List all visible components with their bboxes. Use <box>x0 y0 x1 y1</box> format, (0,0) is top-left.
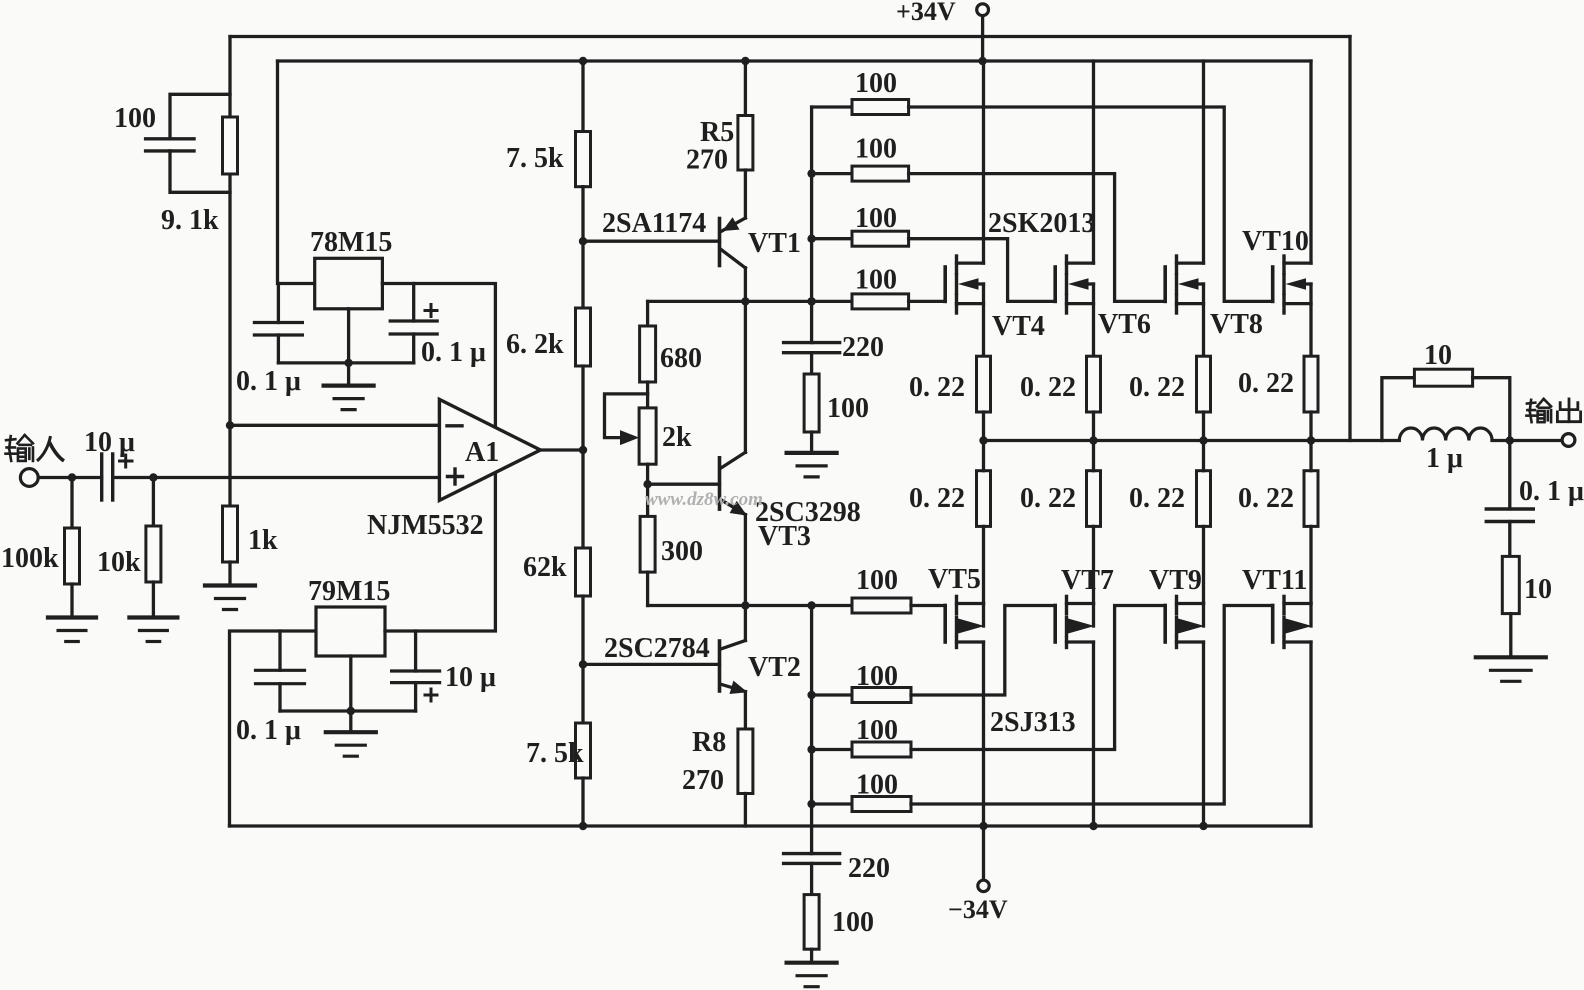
resistor 7.5k (upper) <box>576 132 591 187</box>
label 300 <box>661 536 703 567</box>
svg-text:62k: 62k <box>523 552 567 583</box>
transistor Q VT3 2SC3298 (NPN) <box>648 452 747 605</box>
svg-text:+34V: +34V <box>896 0 956 26</box>
label 270 (R5) <box>686 145 728 176</box>
svg-text:R8: R8 <box>692 727 726 758</box>
junction: chain at -34V rail <box>579 822 587 830</box>
wire: 79M15 output to A1 V- <box>385 473 495 631</box>
svg-text:A1: A1 <box>465 437 499 468</box>
op-amp + pin mark <box>448 469 463 484</box>
junction: bottom bus row4 <box>807 800 815 808</box>
svg-text:VT3: VT3 <box>758 521 811 552</box>
transistor Q VT1 2SA1174 (PNP) <box>583 217 745 302</box>
svg-text:2SC2784: 2SC2784 <box>604 633 710 664</box>
label R8 <box>692 727 726 758</box>
wire: 78M15 ground rail <box>278 309 413 386</box>
wire+resistor 100 row3 (gate feed VT6) <box>812 231 1056 301</box>
label 9.1k <box>161 205 219 236</box>
junction: VT1 collector / top bias node <box>741 297 749 305</box>
label 100 (row4 top) <box>855 265 897 296</box>
terminal -34V <box>978 826 989 892</box>
svg-text:10k: 10k <box>97 547 141 578</box>
wire: +34V rail <box>278 59 1312 62</box>
svg-text:78M15: 78M15 <box>310 227 392 258</box>
svg-text:−34V: −34V <box>948 895 1008 924</box>
resistor 100k (input) <box>65 478 80 618</box>
resistor 10k <box>146 478 161 618</box>
junction: top bus row4 <box>807 297 815 305</box>
svg-text:www.dz8w.com: www.dz8w.com <box>645 489 763 510</box>
svg-text:100: 100 <box>114 103 156 134</box>
label VT3 <box>758 521 811 552</box>
svg-text:680: 680 <box>660 343 702 374</box>
junction: top bus row3 <box>807 235 815 243</box>
label 7.5k (lower) <box>526 738 584 769</box>
svg-text:270: 270 <box>686 145 728 176</box>
svg-text:VT9: VT9 <box>1149 565 1202 596</box>
label 10 (damping) <box>1424 340 1452 371</box>
svg-text:VT2: VT2 <box>748 652 801 683</box>
label 10 (output Zobel) <box>1524 574 1552 605</box>
svg-text:VT11: VT11 <box>1242 565 1307 596</box>
transistor VT4 2SK2013 (N-MOSFET) <box>945 61 983 356</box>
svg-text:0. 1 μ: 0. 1 μ <box>421 337 486 368</box>
svg-text:300: 300 <box>661 536 703 567</box>
label 79M15 <box>308 576 390 607</box>
svg-text:VT8: VT8 <box>1210 309 1263 340</box>
svg-text:100: 100 <box>855 203 897 234</box>
label 7.5k (upper) <box>506 143 564 174</box>
wire+resistor 100 row2 (gate feed VT8) <box>812 166 1166 301</box>
label 输出 (output) <box>1526 399 1580 422</box>
wire: output rail <box>984 439 1400 442</box>
wire: chain 7.5k to 6.2k <box>581 187 584 308</box>
resistor 0.22 (source of VT5) <box>977 471 991 604</box>
label 2SA1174 <box>602 208 706 239</box>
ground under bottom decoupling <box>787 963 837 987</box>
resistor 9.1k (feedback) <box>223 117 238 174</box>
ground under output Zobel <box>1476 657 1546 681</box>
label 2SK2013 <box>988 208 1095 239</box>
wire: 2k to 300 / VT3 base tap <box>646 464 649 516</box>
label 100 (feedback cap) <box>114 103 156 134</box>
label VT1 <box>748 228 801 259</box>
label 62k <box>523 552 567 583</box>
svg-text:1 μ: 1 μ <box>1426 443 1463 474</box>
label 0.22 (VT9) <box>1129 483 1185 514</box>
svg-text:0. 22: 0. 22 <box>1238 483 1294 514</box>
label 100 (top decoupling) <box>827 393 869 424</box>
ground under 100k <box>48 618 96 642</box>
wire: feedback right vertical (output node to top line) <box>1348 37 1351 441</box>
svg-text:NJM5532: NJM5532 <box>367 510 484 541</box>
terminal +34V <box>977 4 989 61</box>
junction: VT7 drain at rail <box>1089 822 1097 830</box>
label 220 (bottom) <box>848 853 890 884</box>
label VT8 <box>1210 309 1263 340</box>
svg-text:100: 100 <box>855 265 897 296</box>
label VT5 <box>928 564 981 595</box>
svg-text:9. 1k: 9. 1k <box>161 205 219 236</box>
resistor 100 (bottom decoupling) <box>804 863 819 962</box>
wire: +34V feed to 78M15 <box>278 61 315 284</box>
transistor VT6 2SK2013 (N-MOSFET) <box>1055 61 1093 356</box>
svg-text:2k: 2k <box>662 422 692 453</box>
wire: -34V feed to 79M15 <box>230 631 317 826</box>
label 0.22 (VT11) <box>1238 483 1294 514</box>
label 100 (row3 bottom) <box>856 715 898 746</box>
label 2SJ313 <box>990 707 1076 738</box>
ground under 79M15 <box>326 732 376 756</box>
svg-text:0. 22: 0. 22 <box>909 372 965 403</box>
junction: A1 output node <box>579 446 587 454</box>
wire: A1 output <box>540 448 583 451</box>
op-amp U1 A1 NJM5532 (triangle) <box>439 399 540 500</box>
wire+resistor 100 row1 bottom (gate feed VT5) <box>648 598 946 613</box>
transistor VT7 2SJ313 (P-MOSFET) <box>1055 441 1094 648</box>
resistor 300 <box>640 516 655 605</box>
wire: chain bottom <box>581 778 584 826</box>
ground under 1k <box>205 586 255 610</box>
label 1u <box>1426 443 1463 474</box>
resistor R5 270 <box>738 61 753 218</box>
label VT9 <box>1149 565 1202 596</box>
svg-text:0. 22: 0. 22 <box>1238 368 1294 399</box>
label 0.22 (VT7) <box>1020 483 1076 514</box>
label 0.1u (78M15 input cap) <box>236 366 301 397</box>
transistor VT9 2SJ313 (P-MOSFET) <box>1165 441 1204 648</box>
resistor 680 <box>640 301 656 408</box>
svg-text:VT10: VT10 <box>1242 226 1309 257</box>
svg-text:0. 22: 0. 22 <box>1129 483 1185 514</box>
svg-text:0. 1 μ: 0. 1 μ <box>236 366 301 397</box>
label VT7 <box>1061 565 1114 596</box>
svg-text:2SA1174: 2SA1174 <box>602 208 706 239</box>
svg-text:100: 100 <box>827 393 869 424</box>
resistor 0.22 (source of VT7) <box>1087 471 1101 604</box>
junction: output rail at VT6 leg <box>1089 436 1097 444</box>
svg-text:0. 22: 0. 22 <box>909 483 965 514</box>
resistor 100 (top decoupling) <box>804 353 819 453</box>
label 100 (row3 top) <box>855 203 897 234</box>
wire: inverting-input vertical (feedback node) <box>228 37 231 507</box>
capacitor 100 (parallel with 9.1k) <box>146 94 230 192</box>
wire: input line from cap to A1 + input <box>113 476 440 479</box>
svg-text:2SK2013: 2SK2013 <box>988 208 1095 239</box>
label VT2 <box>748 652 801 683</box>
label +34V <box>896 0 956 26</box>
wire+resistor 100 row1 (gate feed VT10) <box>812 100 1273 302</box>
label 100 (bottom decoupling) <box>832 907 874 938</box>
wire: bottom gate bias bus <box>810 606 813 854</box>
capacitor 0.1u (78M15 input) <box>254 284 302 363</box>
resistor 6.2k <box>576 308 591 366</box>
wire: feedback line from output to 9.1k (top) <box>230 35 1350 38</box>
polarity + of 78M15 10u cap <box>425 305 437 317</box>
potentiometer 2k (trimmer) <box>605 394 657 464</box>
regulator 78M15 box <box>315 258 383 309</box>
svg-text:100k: 100k <box>1 543 59 574</box>
resistor 0.22 (source of VT9) <box>1197 471 1211 604</box>
junction: chain at +34V rail <box>579 57 587 65</box>
resistor 0.22 (source of VT10) <box>1304 356 1318 440</box>
label 0.1u (output Zobel) <box>1519 476 1584 507</box>
label 2SC3298 <box>755 497 861 528</box>
resistor 0.22 (source of VT11) <box>1304 471 1318 604</box>
resistor 1k (- input to ground) <box>223 506 238 586</box>
svg-text:7. 5k: 7. 5k <box>506 143 564 174</box>
op-amp - pin mark <box>447 424 462 427</box>
polarity + of 79M15 10u cap <box>425 689 437 701</box>
wire: chain top <box>581 61 584 132</box>
label 100 (row1 bottom) <box>856 565 898 596</box>
svg-text:0. 22: 0. 22 <box>1129 372 1185 403</box>
junction: VT1 base tap <box>579 237 587 245</box>
capacitor 220 (top bias decoupling) <box>784 343 840 353</box>
label 100 (row1 top) <box>855 68 897 99</box>
label 270 (R8) <box>682 765 724 796</box>
label 0.1u (78M15 output cap) <box>421 337 486 368</box>
inductor 1u (output) <box>1399 428 1492 441</box>
junction: top bus row2 <box>807 169 815 177</box>
wire: 78M15 output to A1 V+ <box>382 284 495 428</box>
svg-text:100: 100 <box>832 907 874 938</box>
resistor 10 (output Zobel) <box>1502 556 1519 657</box>
transistor VT5 2SJ313 (P-MOSFET) <box>945 441 984 648</box>
svg-text:220: 220 <box>842 332 884 363</box>
resistor R8 270 <box>738 729 753 826</box>
wire: input line to 10u cap <box>38 476 101 479</box>
label NJM5532 <box>367 510 484 541</box>
label 1k <box>248 525 278 556</box>
wire+resistor 100 row2 bottom (gate feed VT7) <box>812 606 1056 703</box>
label 0.22 (VT6) <box>1020 372 1076 403</box>
label VT6 <box>1098 309 1151 340</box>
junction: -34V at rail <box>979 822 987 830</box>
svg-text:100: 100 <box>855 133 897 164</box>
wire: output rail after inductor <box>1492 439 1562 442</box>
capacitor 10u (79M15 output) <box>392 631 440 711</box>
label 2k <box>662 422 692 453</box>
junction: output rail at VT4 leg <box>979 436 987 444</box>
label 0.22 (VT8) <box>1129 372 1185 403</box>
svg-text:100: 100 <box>856 565 898 596</box>
svg-text:0. 22: 0. 22 <box>1020 372 1076 403</box>
svg-text:10: 10 <box>1524 574 1552 605</box>
svg-text:10 μ: 10 μ <box>445 662 496 693</box>
svg-text:270: 270 <box>682 765 724 796</box>
regulator 79M15 box <box>316 607 385 656</box>
svg-text:7. 5k: 7. 5k <box>526 738 584 769</box>
label 100 (row2 top) <box>855 133 897 164</box>
junction: R5 at +34V rail <box>741 57 749 65</box>
capacitor 10u (78M15 output) <box>390 284 437 363</box>
junction: 78M15 ground <box>344 359 352 367</box>
label 100 (row2 bottom) <box>856 661 898 692</box>
transistor VT10 2SK2013 (N-MOSFET) <box>1273 61 1311 356</box>
label 10u <box>84 427 135 458</box>
capacitor 10u (input coupling) <box>102 454 113 500</box>
resistor 62k <box>576 548 591 596</box>
capacitor 0.1u (output Zobel) <box>1486 441 1533 557</box>
junction: +34V at rail <box>978 57 986 65</box>
label 10k <box>97 547 141 578</box>
svg-text:6. 2k: 6. 2k <box>506 329 564 360</box>
junction: Zobel tap <box>1506 436 1514 444</box>
junction: 10k tap <box>149 473 157 481</box>
wire: -34V bottom rail <box>230 824 1312 827</box>
label 220 (top) <box>842 332 884 363</box>
watermark www.dz8w.com <box>645 489 763 510</box>
wire: VT9 drain to -34V rail <box>1202 642 1205 826</box>
junction: VT3 base tap <box>643 480 651 488</box>
svg-text:R5: R5 <box>700 117 734 148</box>
label 0.1u (79M15 cap) <box>236 715 301 746</box>
svg-text:79M15: 79M15 <box>308 576 390 607</box>
svg-text:100: 100 <box>855 68 897 99</box>
label 0.22 (VT10) <box>1238 368 1294 399</box>
svg-text:100: 100 <box>856 769 898 800</box>
label VT10 <box>1242 226 1309 257</box>
label 6.2k <box>506 329 564 360</box>
junction: bottom bus row3 <box>807 745 815 753</box>
svg-text:VT1: VT1 <box>748 228 801 259</box>
ground under 78M15 <box>324 386 374 410</box>
label 680 <box>660 343 702 374</box>
wire+resistor 100 row4 bottom (gate feed VT11) <box>812 606 1273 812</box>
junction: - input tap <box>226 421 234 429</box>
wire: chain 6.2k to 62k <box>581 366 584 548</box>
wire: VT11 drain to -34V rail <box>1309 642 1312 826</box>
label 0.22 (VT5) <box>909 483 965 514</box>
svg-text:2SJ313: 2SJ313 <box>990 707 1076 738</box>
svg-text:100: 100 <box>856 661 898 692</box>
junction: output rail at VT8 leg <box>1199 436 1207 444</box>
wire: chain 62k to 7.5k <box>581 596 584 723</box>
wire+resistor 100 row3 bottom (gate feed VT9) <box>812 606 1166 758</box>
transistor VT8 2SK2013 (N-MOSFET) <box>1165 61 1203 356</box>
label A1 <box>465 437 499 468</box>
svg-text:VT4: VT4 <box>992 311 1045 342</box>
junction: VT2 base tap <box>579 660 587 668</box>
svg-text:220: 220 <box>848 853 890 884</box>
transistor Q VT2 2SC2784 (NPN) <box>583 606 748 730</box>
label -34V <box>948 895 1008 924</box>
junction: VT3 emitter / bottom bias node <box>741 601 749 609</box>
svg-text:1k: 1k <box>248 525 278 556</box>
input terminal (输入) <box>20 469 38 487</box>
label 10u (79M15 cap) <box>445 662 496 693</box>
capacitor 220 (bottom bias decoupling) <box>784 854 840 864</box>
junction: output rail at VT10 leg <box>1307 436 1315 444</box>
label VT11 <box>1242 565 1307 596</box>
svg-text:0. 1 μ: 0. 1 μ <box>236 715 301 746</box>
ground under top decoupling <box>787 453 837 477</box>
junction: VT9 drain at rail <box>1199 822 1207 830</box>
transistor VT11 2SJ313 (P-MOSFET) <box>1273 441 1312 648</box>
label VT4 <box>992 311 1045 342</box>
label 0.22 (VT4) <box>909 372 965 403</box>
junction: 79M15 ground <box>347 707 355 715</box>
label 78M15 <box>310 227 392 258</box>
svg-text:0. 22: 0. 22 <box>1020 483 1076 514</box>
wire: top gate bias bus <box>810 107 813 343</box>
junction: bottom bus row1 <box>807 601 815 609</box>
capacitor 0.1u (79M15 input) <box>256 631 305 711</box>
wire: VT1 collector to VT3 collector <box>744 301 747 452</box>
label 100k <box>1 543 59 574</box>
resistor 10 (output damping) <box>1382 369 1510 440</box>
label 输入 (input) <box>6 435 64 461</box>
terminal output (输出) <box>1562 434 1575 447</box>
junction: bottom bus row2 <box>807 691 815 699</box>
label R5 <box>700 117 734 148</box>
svg-text:0. 1 μ: 0. 1 μ <box>1519 476 1584 507</box>
svg-text:10: 10 <box>1424 340 1452 371</box>
resistor 7.5k (lower) <box>576 723 591 778</box>
wire+resistor 100 row4 (gate feed VT4) <box>648 294 946 309</box>
polarity + of input 10u <box>120 455 133 467</box>
wire: VT7 drain to -34V rail <box>1092 642 1095 826</box>
svg-text:VT5: VT5 <box>928 564 981 595</box>
wire: 79M15 ground rail <box>280 656 416 732</box>
label 100 (row4 bottom) <box>856 769 898 800</box>
svg-text:10 μ: 10 μ <box>84 427 135 458</box>
wire: VT5 drain to -34V rail <box>982 642 985 826</box>
resistor 0.22 (source of VT8) <box>1197 356 1211 440</box>
label 2SC2784 <box>604 633 710 664</box>
junction: top bus at row4 line <box>807 297 815 305</box>
svg-text:100: 100 <box>856 715 898 746</box>
svg-text:VT6: VT6 <box>1098 309 1151 340</box>
resistor 0.22 (source of VT4) <box>977 356 991 440</box>
junction: 100k tap <box>68 473 76 481</box>
wire: - input line to A1 <box>230 424 439 427</box>
svg-text:VT7: VT7 <box>1061 565 1114 596</box>
resistor 0.22 (source of VT6) <box>1087 356 1101 440</box>
ground under 10k <box>129 618 177 642</box>
